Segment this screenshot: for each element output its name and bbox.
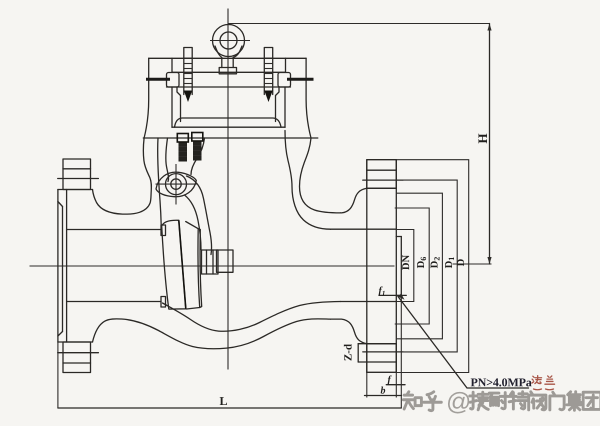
seat ring top <box>161 225 166 236</box>
body chamber right inner wall <box>285 131 331 230</box>
H extension line from eyebolt <box>229 23 490 25</box>
Z-d label <box>344 344 352 360</box>
eyebolt base flare <box>215 46 222 58</box>
body neck right outer <box>300 138 341 213</box>
right flange raised face <box>396 237 401 296</box>
label f <box>388 375 392 384</box>
stem hex nut <box>202 250 219 274</box>
text 兰 (red) <box>545 376 555 384</box>
watermark 耐 <box>489 393 508 409</box>
outlet bore bottom line <box>341 301 397 303</box>
bonnet step under left tab <box>177 87 181 122</box>
label H <box>478 134 487 144</box>
bonnet gasket bump <box>175 118 282 127</box>
left flange outer face <box>57 190 59 343</box>
bonnet inner wall right <box>284 87 286 127</box>
L left extension <box>57 342 59 408</box>
f1 tick line <box>379 294 406 296</box>
body belly inner <box>163 302 341 332</box>
right flange bolt bottom <box>358 344 403 373</box>
b dimension tick <box>365 395 402 397</box>
right flange bolt top <box>363 160 403 189</box>
bonnet flange bottom line <box>167 86 291 88</box>
watermark 捷 <box>470 392 488 410</box>
label f1 <box>379 286 385 295</box>
left flange top face <box>58 189 93 191</box>
left flange bolt bottom <box>58 342 99 373</box>
L dimension line <box>58 407 401 409</box>
watermark @ <box>448 392 469 414</box>
hinge bracket stud left <box>177 134 188 162</box>
watermark 门 <box>550 392 564 410</box>
dimension rect D2 <box>396 193 442 339</box>
body belly outer joining flange hub <box>93 319 331 349</box>
dimension H line <box>489 24 491 265</box>
text PN>4.0MPa <box>471 378 532 386</box>
dimension rect D <box>366 160 468 373</box>
seat ring bottom <box>161 297 166 308</box>
rocker arm outer edge <box>187 176 212 255</box>
disc backing plate <box>186 222 200 310</box>
right flange hub top <box>341 188 367 213</box>
left flange gasket face line <box>62 207 64 332</box>
rocker arm inner edge <box>185 195 202 250</box>
hinge bracket stud right <box>192 133 203 161</box>
vertical centerline <box>227 9 229 370</box>
eyebolt ring inner <box>220 32 237 49</box>
eyebolt crosshair <box>210 40 250 42</box>
body inner left wall <box>158 138 162 225</box>
leader arrowhead <box>398 294 405 300</box>
watermark 乎 <box>424 392 442 411</box>
bonnet left edge <box>144 58 149 138</box>
eyebolt ring outer <box>213 25 245 57</box>
gasket thick mark right <box>287 78 314 81</box>
dimension rect DN <box>396 230 414 302</box>
hinge boss lens <box>156 172 196 197</box>
right flange back face <box>366 160 368 373</box>
hinge bracket left edge <box>166 138 169 182</box>
label DN <box>402 255 409 270</box>
bonnet flange left tab <box>167 73 180 88</box>
label D1 <box>445 257 454 268</box>
dimension rect D6 <box>395 208 430 324</box>
label L <box>220 397 227 405</box>
watermark 阀 <box>529 392 546 410</box>
bonnet inner wall left <box>171 87 173 127</box>
disc backing right edge <box>198 229 202 308</box>
label b <box>381 387 386 394</box>
inlet bore top line <box>67 229 161 231</box>
watermark 集 <box>567 392 582 410</box>
text 法 (red) <box>532 376 542 384</box>
eyebolt shank <box>221 58 223 68</box>
bonnet cover plate top <box>149 57 306 59</box>
bonnet flange right tab <box>278 73 291 88</box>
hinge bracket right edge <box>191 138 205 175</box>
left flange inner face <box>66 190 68 343</box>
watermark 特 <box>509 392 528 409</box>
b extension right / L right extension <box>395 373 397 398</box>
b extension left <box>366 373 368 398</box>
disc plate <box>162 220 186 309</box>
body neck left silhouette joining flange hub <box>93 138 152 214</box>
right flange hub bottom <box>331 319 367 344</box>
bonnet cover plate bottom <box>172 71 286 73</box>
gasket thick mark left <box>146 78 170 81</box>
horizontal centerline <box>30 265 395 267</box>
stem end cap <box>217 250 234 272</box>
centerline stub at H dimension <box>453 263 492 265</box>
red underline marks <box>534 388 554 391</box>
hinge pin outer circle <box>166 174 187 195</box>
label D <box>457 259 464 266</box>
bonnet stud bolt right <box>264 48 272 103</box>
outlet bore top line <box>331 228 397 230</box>
bonnet right edge <box>306 58 311 138</box>
body top flange line <box>143 137 317 139</box>
watermark 团 <box>583 392 600 409</box>
bonnet flange joint line <box>172 126 285 128</box>
label D2 <box>431 257 440 268</box>
right flange top face <box>367 187 397 189</box>
bonnet step under right tab <box>276 87 280 122</box>
bonnet stud bolt left <box>184 48 192 103</box>
hinge pin inner circle <box>171 179 181 189</box>
f dimension tick <box>386 384 405 386</box>
label D6 <box>417 257 426 268</box>
dimension rect D1 <box>403 180 457 352</box>
right flange front face <box>395 160 397 373</box>
watermark 知 <box>403 392 421 409</box>
left flange bolt top <box>58 159 99 190</box>
disc face dark edge <box>179 220 186 308</box>
hinge crosshair <box>156 183 197 185</box>
inlet bore bottom line <box>67 301 161 303</box>
leader line PN <box>398 297 529 389</box>
right flange bottom face <box>367 343 397 345</box>
eyebolt collar <box>219 68 236 74</box>
left flange bottom face <box>58 341 93 343</box>
